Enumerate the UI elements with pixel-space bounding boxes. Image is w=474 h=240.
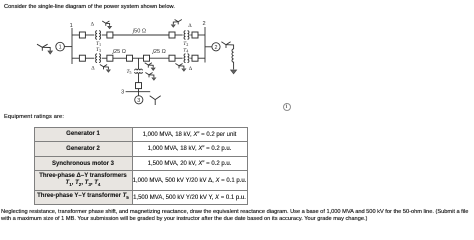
svg-text:1: 1	[59, 45, 62, 51]
svg-text:3: 3	[137, 98, 140, 104]
svg-text:T4: T4	[183, 47, 189, 53]
svg-text:Δ: Δ	[91, 21, 95, 27]
svg-text:j25 Ω: j25 Ω	[152, 49, 166, 55]
svg-text:j25 Ω: j25 Ω	[112, 49, 126, 55]
svg-text:1: 1	[70, 23, 73, 29]
svg-text:Δ: Δ	[188, 23, 192, 29]
svg-text:T2: T2	[183, 41, 188, 47]
svg-text:Δ: Δ	[91, 65, 95, 71]
svg-text:Δ: Δ	[189, 66, 193, 72]
svg-text:T3: T3	[96, 47, 101, 53]
svg-text:T5: T5	[126, 69, 131, 75]
svg-text:2: 2	[215, 45, 218, 51]
svg-text:3: 3	[121, 90, 124, 96]
svg-text:j50 Ω: j50 Ω	[132, 28, 146, 34]
svg-text:2: 2	[202, 21, 205, 27]
